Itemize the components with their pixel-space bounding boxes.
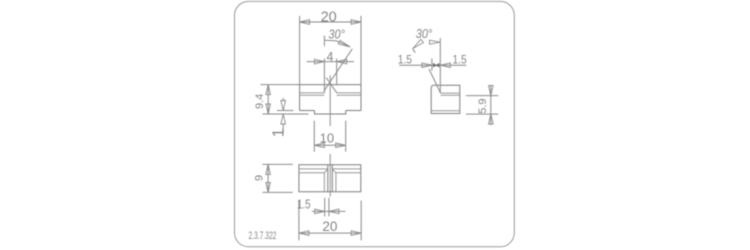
dimension 20 (front top) extension lines [300,16,361,85]
dimension 30 deg (front) tick on extension line [323,36,325,47]
svg-text:20: 20 [322,219,337,234]
svg-text:20: 20 [321,9,337,25]
dimension 20 (front top) left arrowhead [300,20,310,25]
dimension 1.5/1.5 (side) dimension line [399,64,466,66]
bottom view slot left edge [327,165,329,192]
side view slot line upper [441,92,460,94]
side view slot line lower [441,94,460,96]
bottom view inner right vertical [335,173,337,192]
bottom view slot right edge [331,165,333,192]
dimension 4 (front) right arrowhead [337,59,347,64]
dimension 1.5 (bottom view) dimension line [312,210,346,212]
dimension 5.9 (side right) bottom arrowhead [489,114,494,124]
dimension 1 (front left step) upper arrowhead [281,101,286,111]
dimension 9.4 (front left) top extension line [261,84,300,86]
dimension 9.4 (front left) top arrowhead [266,85,271,95]
svg-text:5.9: 5.9 [477,99,489,114]
side view V back wall vertical / extension line [439,38,441,93]
dimension 10 (front bottom) extension lines [314,121,345,152]
dimension 30 deg (side) right arrowhead [430,40,441,44]
dimension 4 (front) dimension line [307,61,355,63]
dimension 1.5/1.5 (side) short left extension line [431,59,433,71]
svg-text:4: 4 [327,50,334,64]
front view V-groove second flank [326,78,337,93]
dimension 1 (front left step) lower stem [282,124,284,133]
dimension 9 (bottom view left) bottom arrowhead [266,182,271,192]
svg-text:1.5: 1.5 [453,54,467,67]
front view bottom tab [315,111,346,115]
front view vertical centerline [329,76,331,197]
front view slot line upper [300,92,361,94]
dimension 20 (front top) dimension line [300,21,361,23]
dimension 5.9 (side right) bottom extension line [466,113,498,115]
dimension 9.4 (front left) bottom extension line [263,113,309,115]
dimension 1.5/1.5 (side) middle arrow pair blob [433,64,439,67]
bottom view inner left vertical [323,173,325,192]
dimension 30 deg (side) arc tail [413,49,416,53]
dimension 10 (front bottom) dimension line [314,144,345,146]
front view outline [300,85,361,111]
side view inner bottom line [431,110,460,112]
side view outline with rounded top-left corner [431,85,460,113]
dimension 9.4 (front left) middle extension line [277,110,294,112]
dimension 20 (bottom view) right arrowhead [351,231,361,236]
dimension 9 (bottom view left) top arrowhead [266,164,271,174]
dimension 1.5 (bottom view) left arrowhead [315,209,325,214]
dimension 20 (front top) right arrowhead [351,20,361,25]
drawing sheet border [235,1,515,246]
side view V-groove flank (30 deg) [429,69,441,93]
dimension 5.9 (side right) top arrowhead [489,86,494,96]
svg-text:2.3.7.322: 2.3.7.322 [249,229,277,241]
dimension 10 (front bottom) right arrowhead [336,143,346,148]
dimension 30 deg (front) leader line [324,40,350,47]
front view V-groove flank extended (30 deg line) [324,49,353,92]
bottom view second line [299,168,361,170]
dimension 1 (front left step) lower arrowhead [281,114,286,124]
dimension 4 (front) extension lines [324,59,336,93]
front view slot line lower [300,94,361,96]
svg-text:1: 1 [271,128,288,137]
dimension 9 (bottom view left) extension lines [263,164,293,192]
dimension 1.5 (bottom view) right arrowhead [329,209,339,214]
dimension 20 (bottom view) dimension line [299,232,361,234]
svg-text:30°: 30° [328,28,345,42]
dimension 9.4 (front left) bottom arrowhead [266,104,271,114]
dimension 30 deg (front) arrowhead [338,40,350,47]
svg-text:9: 9 [253,175,265,181]
dimension 4 (front) left arrowhead [314,59,324,64]
dimension 9.4 (front left) dimension line [267,85,269,114]
svg-text:9.4: 9.4 [254,94,266,109]
bottom view outline [299,165,361,192]
dimension 1.5/1.5 (side) left outer arrowhead [422,63,432,68]
svg-text:1.5: 1.5 [398,54,412,67]
dimension 9 (bottom view left) dimension line [267,164,269,192]
svg-text:30°: 30° [416,27,433,41]
dimension 1.5/1.5 (side) right outer arrowhead [440,63,450,68]
bottom view third line with chamfers [299,169,361,173]
dimension 30 deg (side) left arrowhead [413,39,424,48]
dimension 20 (bottom view) extension lines [299,201,361,241]
dimension 5.9 (side right) dimension line [490,85,492,125]
dimension 5.9 (side right) top extension line [466,95,498,97]
dimension 1.5 (bottom view) extension lines [325,198,329,217]
dimension 10 (front bottom) left arrowhead [314,143,324,148]
dimension 20 (bottom view) left arrowhead [299,231,309,236]
svg-text:10: 10 [320,131,334,146]
dimension 1 (front left step) upper stem [282,98,284,101]
